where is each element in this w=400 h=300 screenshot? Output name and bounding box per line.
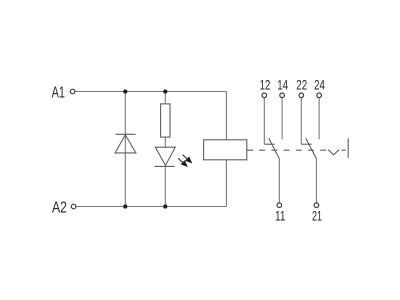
svg-text:A2: A2: [52, 200, 67, 217]
svg-text:A1: A1: [52, 85, 65, 102]
svg-text:14: 14: [277, 77, 288, 93]
svg-text:21: 21: [312, 207, 322, 223]
svg-text:11: 11: [275, 207, 286, 223]
svg-text:24: 24: [314, 77, 325, 93]
svg-text:22: 22: [296, 77, 307, 93]
svg-text:12: 12: [260, 77, 271, 93]
